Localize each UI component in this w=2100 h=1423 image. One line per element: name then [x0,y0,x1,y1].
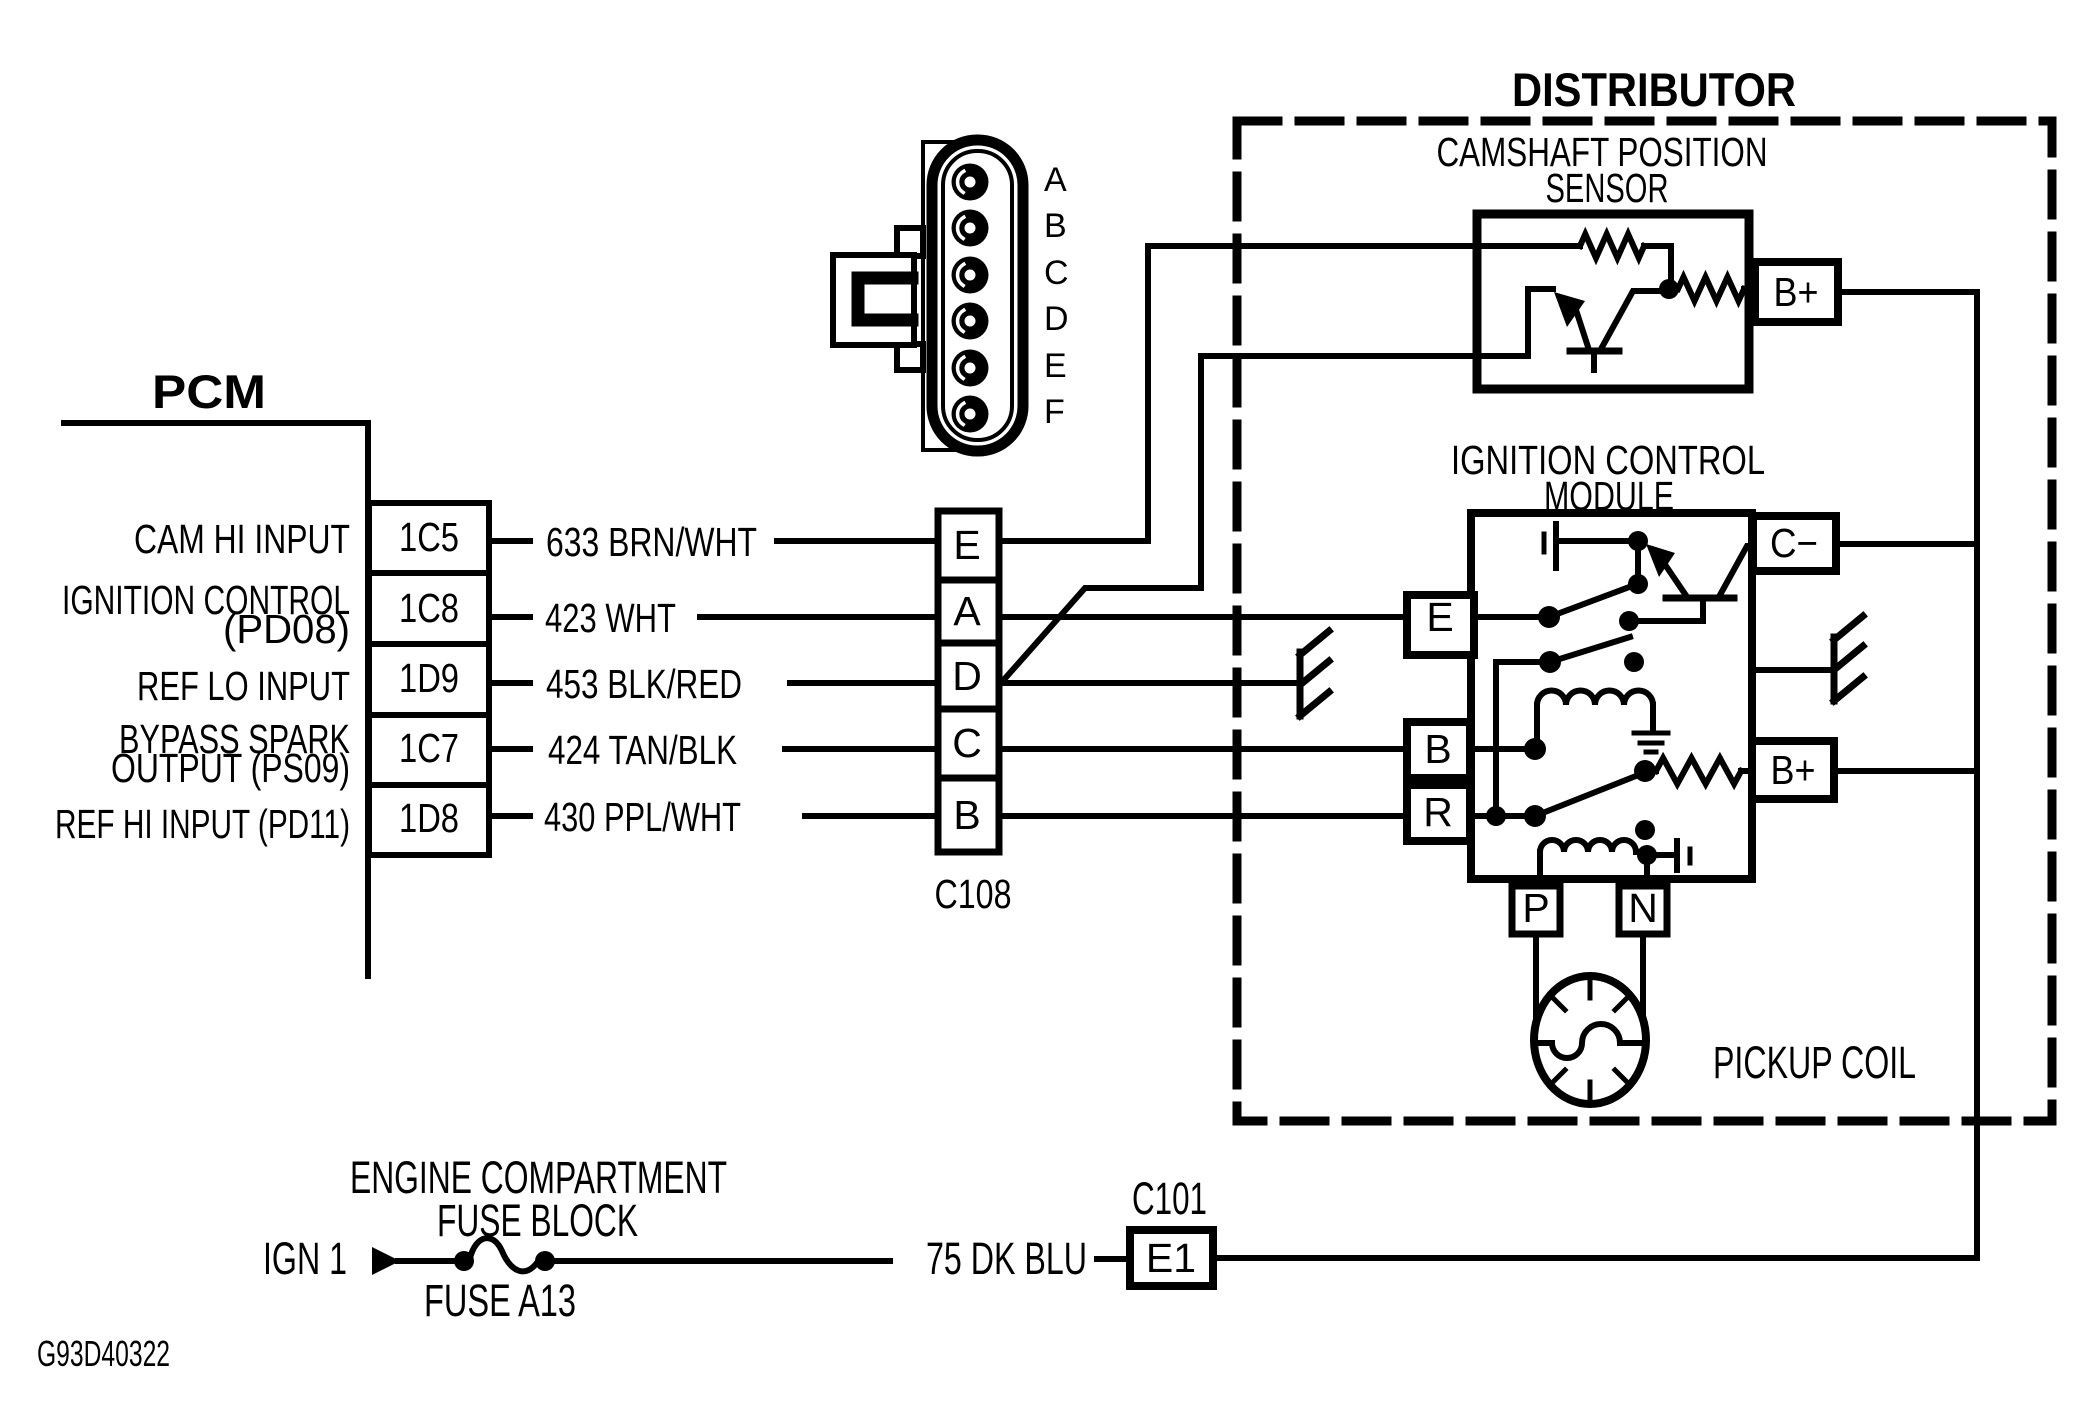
svg-text:C101: C101 [1132,1173,1207,1224]
sensor wire top lead [1473,243,1580,249]
wire C108-D branch up to sensor emitter [1001,356,1477,683]
module coil upper [1534,705,1540,749]
connector C101 pin E1 [1130,1230,1213,1286]
svg-text:633 BRN/WHT: 633 BRN/WHT [546,519,757,565]
wire 430 PPL/WHT to C108-B [805,813,938,819]
wire C108-A to module pin E [999,614,1407,620]
module resistor to B+ [1645,768,1656,774]
6-way connector face [923,142,957,450]
svg-text:PICKUP COIL: PICKUP COIL [1713,1037,1916,1088]
svg-text:DISTRIBUTOR: DISTRIBUTOR [1512,63,1796,116]
wire C108-E up to camshaft sensor [999,246,1477,541]
sensor resistor R-right [1678,277,1744,301]
svg-text:D: D [1044,300,1069,338]
svg-text:E: E [1426,594,1453,640]
feed from R row up to switch 2 [1493,662,1499,816]
wire 423 WHT to C108-A [700,614,938,620]
svg-text:B: B [1044,207,1067,245]
connector C108 body [938,511,999,852]
switch 1 (E input) [1471,614,1545,620]
wire fuse to 75 DK BLU [545,1258,890,1264]
PCM connector pin box [369,503,489,855]
IGN 1 feed arrow [372,1247,400,1275]
module pin R wire [1471,813,1530,819]
module pin P [1512,886,1560,934]
svg-text:1C7: 1C7 [399,725,459,771]
wire C108-B to module pin R [999,813,1407,819]
svg-text:FUSE A13: FUSE A13 [424,1275,576,1326]
module internal ground (right) [1647,852,1677,858]
svg-text:OUTPUT (PS09): OUTPUT (PS09) [111,745,350,791]
main B+ feed wire (right vertical) [1213,292,1977,1258]
svg-text:C: C [952,720,982,766]
sensor base lead step [1473,289,1553,356]
switch 3 [1535,774,1641,816]
connector latch [897,228,923,256]
camshaft position sensor box [1477,214,1749,389]
DISTRIBUTOR dashed enclosure [1237,121,2052,1121]
fuse A13 [454,1251,474,1271]
module pin R [1407,785,1470,841]
wire 453 BLK/RED to C108-D [790,680,938,686]
module transistor [1646,544,1675,577]
connector cavity D [952,303,989,340]
svg-text:(PD08): (PD08) [223,606,350,652]
sensor resistor R-top [1580,234,1644,258]
module pin B [1407,722,1470,778]
connector cavity F [952,396,989,433]
svg-text:R: R [1423,789,1453,835]
connector cavity B [952,210,989,247]
svg-text:F: F [1044,393,1065,431]
sensor B+ terminal [1755,262,1838,322]
svg-text:P: P [1522,885,1549,931]
wire C108-D to ground comb [999,680,1300,686]
svg-text:B+: B+ [1774,269,1819,315]
connector cavity E [952,350,989,387]
svg-text:1D8: 1D8 [399,795,459,841]
module pin B wire [1471,746,1530,752]
pickup coil [1533,934,1539,1026]
svg-text:B: B [953,792,980,838]
svg-text:453 BLK/RED: 453 BLK/RED [546,661,742,707]
connector cavity A [952,164,989,201]
sensor junction node [1659,279,1679,299]
wire C108-C to module pin B [999,746,1407,752]
node top junction [1628,531,1648,551]
svg-text:1D9: 1D9 [399,655,459,701]
module pin N [1619,886,1667,934]
ground comb (REF LO) [1297,652,1304,716]
svg-text:REF HI INPUT (PD11): REF HI INPUT (PD11) [55,801,350,847]
svg-text:424 TAN/BLK: 424 TAN/BLK [548,727,737,773]
svg-text:E1: E1 [1146,1235,1196,1281]
svg-text:CAM HI INPUT: CAM HI INPUT [134,516,350,562]
module internal ground (coil) [1634,731,1668,736]
svg-text:G93D40322: G93D40322 [37,1333,170,1374]
sensor transistor [1570,348,1619,355]
svg-text:1C8: 1C8 [399,585,459,631]
wire module B+ to main feed [1834,768,1977,774]
module internal ground (left) [1542,534,1547,552]
svg-text:PCM: PCM [152,365,266,418]
PCM block outline [64,423,368,976]
svg-text:SENSOR: SENSOR [1546,165,1669,211]
switch 2 [1496,659,1545,665]
svg-text:A: A [953,588,981,634]
svg-text:D: D [952,653,982,699]
svg-text:430 PPL/WHT: 430 PPL/WHT [544,794,741,840]
svg-text:75 DK BLU: 75 DK BLU [926,1233,1087,1284]
svg-text:FUSE BLOCK: FUSE BLOCK [437,1195,638,1246]
svg-text:C108: C108 [935,871,1012,917]
module coil lower [1540,840,1636,852]
open contact node [1635,820,1655,840]
svg-text:423 WHT: 423 WHT [545,595,676,641]
svg-text:E: E [1044,347,1067,385]
wire sensor B+ to main feed [1838,289,1977,295]
module pin E [1407,595,1474,655]
svg-text:A: A [1044,161,1067,199]
wire 633 BRN/WHT to C108-E [777,538,938,544]
svg-text:B: B [1424,726,1451,772]
svg-text:N: N [1628,885,1658,931]
connector cavity C [952,257,989,294]
svg-text:C: C [1044,254,1069,292]
pin stub wires [489,538,530,544]
svg-text:REF LO INPUT: REF LO INPUT [137,663,350,709]
wire C- to main feed [1836,541,1977,547]
module pin B+ [1752,741,1834,799]
sensor wire resistor to junction [1644,246,1671,289]
svg-text:C−: C− [1770,520,1818,566]
ignition control module box [1471,513,1752,879]
svg-text:1C5: 1C5 [399,514,459,560]
svg-text:B+: B+ [1771,747,1816,793]
svg-text:IGN 1: IGN 1 [263,1233,347,1284]
module pin C- [1753,516,1836,571]
wire 424 TAN/BLK to C108-C [785,746,938,752]
svg-text:E: E [953,522,980,568]
module ground comb (right) [1752,667,1834,673]
